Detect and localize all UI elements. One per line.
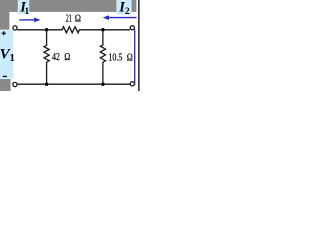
svg-text:21: 21 (66, 14, 72, 25)
terminal top-right (130, 26, 134, 30)
junction node top-left (45, 28, 48, 31)
svg-text:42: 42 (52, 52, 60, 63)
resistor R 42 ohm (left branch) (44, 30, 49, 84)
terminal bottom-left (13, 82, 17, 86)
polarity minus (3, 76, 7, 77)
junction node bottom-left (45, 83, 48, 86)
wire bottom (17, 83, 130, 85)
resistor R 10.5 ohm (right branch) (100, 30, 105, 84)
highlight box label I2 (116, 0, 131, 15)
gray page block bottom-left (0, 79, 11, 91)
terminal top-left (13, 26, 17, 30)
highlight box label I1 (18, 0, 29, 14)
terminal bottom-right (130, 82, 134, 86)
svg-text:10.5: 10.5 (108, 52, 122, 63)
highlight box label V1 (0, 30, 13, 78)
canvas border line right (138, 0, 139, 91)
svg-text:Ω: Ω (127, 52, 133, 63)
user-drawn wire right (blue) (134, 29, 136, 85)
junction node bottom-right (101, 83, 104, 86)
junction node top-right (101, 28, 104, 31)
current arrow I2 (103, 15, 137, 20)
polarity plus (2, 31, 6, 35)
gray page block top-left (0, 0, 9, 30)
gray page band top (0, 0, 136, 12)
current arrow I1 (19, 18, 40, 23)
svg-text:Ω: Ω (64, 52, 70, 63)
white canvas background (0, 0, 140, 91)
svg-text:Ω: Ω (75, 14, 81, 25)
wire top (with resistor R 21 ohm zigzag) (17, 27, 130, 33)
